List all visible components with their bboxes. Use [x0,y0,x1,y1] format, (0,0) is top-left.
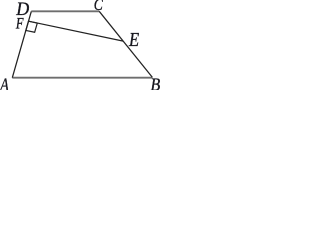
svg-text:E: E [128,29,139,51]
wire: side AB (bottom edge of trapezoid) [12,77,152,79]
svg-text:A: A [0,74,9,90]
wire: side DC (top edge of trapezoid) [31,10,99,12]
wire: segment FE [29,21,124,41]
svg-text:F: F [15,15,24,33]
svg-text:C: C [94,0,104,15]
wire: side AD (left edge of trapezoid) [12,11,31,77]
right-angle mark at F [26,21,37,32]
svg-text:B: B [151,75,161,90]
wire: side CB (right edge of trapezoid through E) [99,11,152,77]
